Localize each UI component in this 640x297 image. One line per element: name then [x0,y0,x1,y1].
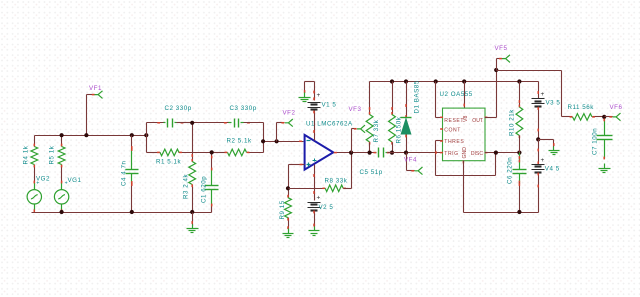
junction dots on VCC bus [390,79,522,83]
svg-text:R10 21k: R10 21k [509,109,516,136]
svg-text:VF3: VF3 [349,106,362,113]
battery V1 5 [308,82,337,141]
resistor R10 21k [509,82,523,153]
svg-text:+: + [317,92,321,99]
capacitor C5 51p [360,148,395,176]
op-amp U1 LMC6762A [305,121,353,170]
svg-text:VF4: VF4 [404,157,417,164]
wire VCC top bus [370,81,538,83]
svg-text:R5 1k: R5 1k [49,145,56,164]
555 pin labels left [444,118,464,157]
555 pin labels right [471,118,483,157]
555 GND pin marker [462,147,468,159]
svg-text:V3 5: V3 5 [546,99,561,106]
wire op-amp noninverting input [289,164,305,189]
555 pin ticks [440,117,487,164]
junction dots twin-T [190,121,214,155]
node VF2 voltage pin [277,110,296,142]
wire C3 corner down to mid rail [263,123,265,142]
battery V4 5 [532,140,560,213]
capacitor C4 4.7n [121,136,139,213]
svg-text:THRES: THRES [444,139,464,145]
wire THRES tie to TRIG [435,141,442,176]
svg-text:+: + [317,195,321,202]
resistor R1 5.1k [147,149,212,165]
resistor R5 1k [49,136,66,182]
555 V+ pin marker [463,116,469,122]
battery V3 5 [532,91,561,140]
svg-text:C1 620p: C1 620p [201,176,208,203]
svg-text:C4 4.7n: C4 4.7n [121,160,128,186]
wire TRIG loop to DISC node [436,153,496,176]
node VF5 voltage pin [494,45,510,72]
wire main input bus [35,135,147,137]
wire VCC corner to V3 [538,82,539,99]
wire DISC line [485,151,522,155]
battery V2 5 [308,165,334,227]
wire top line to R11 [497,71,562,117]
resistor R8 33k feedback [289,153,352,192]
resistor R3 2.4k to ground rail [183,123,196,213]
junction dots on main bus [60,133,149,137]
svg-text:C7 100n: C7 100n [592,128,599,155]
ground at V2 battery [309,227,320,236]
wire VCC to V+ pin [463,82,465,109]
node VF6 voltage pin [602,104,622,121]
svg-text:VF6: VF6 [610,104,623,111]
diode D1 BAS85 [401,80,421,152]
wire bus jog down to R rail [146,136,148,153]
svg-text:R8 33k: R8 33k [325,178,348,185]
svg-text:C2 330p: C2 330p [165,105,192,112]
capacitor C3 330p [193,105,264,128]
svg-text:R6 150k: R6 150k [395,116,402,143]
ground at V1 battery [299,82,315,102]
svg-text:V2 5: V2 5 [319,204,334,211]
resistor R11 56k [562,104,605,120]
svg-text:R11 56k: R11 56k [568,104,595,111]
svg-text:OUT: OUT [472,118,483,124]
svg-text:U1 LMC6762A: U1 LMC6762A [306,121,353,128]
ground at R9 [283,226,294,237]
capacitor C1 620p to ground rail [201,153,219,213]
svg-text:R3 2.4k: R3 2.4k [183,173,190,199]
ground at C7 [599,164,611,173]
junction dots bottom rail [60,210,195,214]
wire R2 corner up to mid rail [263,142,265,153]
svg-text:+: + [36,181,40,187]
svg-text:V8: V8 [463,116,469,122]
voltage source VG2 [27,175,50,212]
svg-text:C5 51p: C5 51p [360,169,383,176]
junction dot between V3 and V4 [536,137,540,141]
svg-text:D1 BAS85: D1 BAS85 [414,80,421,113]
timer U2 OA555 box [440,91,486,161]
wire bottom ground rail [32,212,212,214]
svg-text:R9 15: R9 15 [279,200,286,219]
svg-text:+: + [65,181,69,187]
svg-text:C6 220n: C6 220n [507,157,514,184]
resistor R6 150k [389,82,403,153]
svg-text:GND: GND [462,147,468,159]
wire bus jog up to C rail [146,123,148,136]
capacitor C7 100n [592,119,613,160]
node VF4 voltage pin [404,151,423,175]
node VF3 voltage pin [349,106,366,155]
svg-text:V1 5: V1 5 [322,102,337,109]
capacitor C2 330p [147,105,193,128]
resistor R7 33k [366,82,380,153]
resistor R2 5.1k [212,138,264,156]
wire VCC to RESET pin [436,82,443,118]
svg-text:VF1: VF1 [89,85,102,92]
resistor R9 15 [279,189,291,229]
svg-text:VF2: VF2 [283,110,296,117]
wire op-amp output [334,152,375,154]
svg-text:R1 5.1k: R1 5.1k [156,159,182,166]
wire OUT pin to top line [485,71,497,118]
junction dot noninverting node [286,186,290,190]
capacitor C6 220n [507,153,527,213]
svg-text:+: + [541,91,545,98]
wire output line to 555 trigger [393,152,443,154]
ground symbol of twin-T [187,213,199,233]
svg-text:R7 33k: R7 33k [373,119,380,142]
node VF1 voltage pin [87,85,103,136]
voltage source VG1 [54,177,81,212]
svg-text:R2 5.1k: R2 5.1k [227,138,253,145]
svg-text:RESET: RESET [444,118,464,124]
wire mid rail to op-amp inverting input [261,139,304,143]
resistor R4 1k [23,136,38,182]
svg-text:VF5: VF5 [495,45,508,52]
svg-text:+: + [541,157,545,164]
svg-text:C3 330p: C3 330p [230,105,257,112]
ground between batteries [539,140,560,155]
svg-text:R4 1k: R4 1k [23,145,30,164]
svg-text:TRIG: TRIG [444,151,458,157]
wire C1 bottom corner [211,207,213,213]
svg-text:CONT: CONT [444,128,461,134]
svg-text:U2 OA555: U2 OA555 [440,91,473,98]
wire 555 ground run [464,161,539,215]
svg-text:V4 5: V4 5 [545,165,560,172]
svg-text:DISC: DISC [471,151,483,157]
svg-text:VG1: VG1 [68,177,82,184]
